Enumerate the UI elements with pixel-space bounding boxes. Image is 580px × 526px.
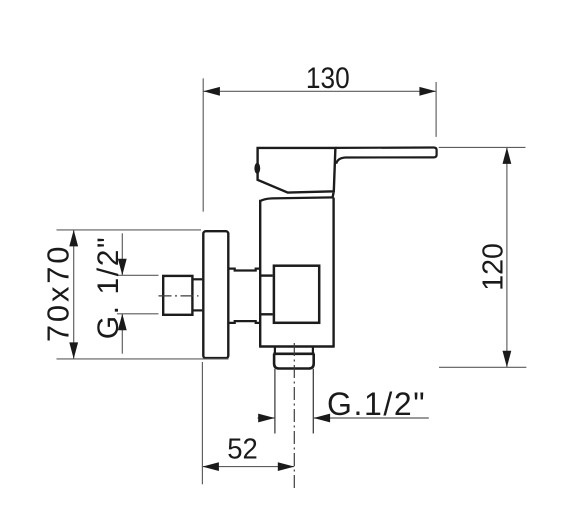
dim 70x70 arrow bottom xyxy=(69,342,78,359)
svg-text:130: 130 xyxy=(306,62,350,95)
dim 130 arrow right xyxy=(419,87,436,96)
svg-text:G.1/2": G.1/2" xyxy=(327,386,426,422)
dim G.1/2 left arrow down xyxy=(118,259,127,276)
dim G.1/2 left extension line bottom xyxy=(117,313,159,315)
body top arc (under handle) xyxy=(260,197,333,201)
left nipple neck bottom edge xyxy=(192,309,202,311)
valve block face (inner square) xyxy=(274,266,319,323)
dim 120 arrow bottom xyxy=(503,351,512,368)
dim G.1/2 left dimension line lower segment xyxy=(121,314,123,354)
svg-text:70x70: 70x70 xyxy=(41,244,76,342)
dim 130 arrow left xyxy=(203,87,220,96)
dim G.1/2 left dimension line upper segment xyxy=(121,233,123,275)
left nipple neck top edge xyxy=(192,278,202,280)
svg-text:G. 1/2": G. 1/2" xyxy=(92,236,125,340)
outlet nut body with chamfered bottom xyxy=(274,354,314,369)
connector pipe top edge (plate to body, with jogs) xyxy=(229,269,260,271)
outlet nut top edge xyxy=(273,352,314,355)
left inlet nipple G1/2 xyxy=(163,276,192,315)
dim G.1/2 bottom dimension line left tail with arrow xyxy=(258,417,275,419)
dim 70x70 extension line top xyxy=(57,229,202,231)
dim G.1/2 left extension line top xyxy=(117,274,159,276)
faucet body column xyxy=(259,198,335,347)
dim 70x70 arrow top xyxy=(69,230,78,247)
dim G.1/2 left arrow up xyxy=(118,314,127,331)
nipple centerline (dash-dot) xyxy=(159,295,199,297)
handle side button (dark bump) xyxy=(254,163,260,174)
wall plate (escutcheon flange) xyxy=(203,231,228,358)
dim 130 extension line right xyxy=(435,82,437,137)
svg-text:52: 52 xyxy=(227,433,258,465)
dim 120 extension line top xyxy=(439,146,526,148)
dim 130 extension line left xyxy=(202,78,204,211)
dim 70x70 dimension line xyxy=(73,230,75,359)
dim 130 dimension line xyxy=(203,90,436,92)
dim 120 arrow top xyxy=(503,147,512,164)
inlet upper edge into valve block xyxy=(260,274,273,276)
dim 70x70 extension line bottom xyxy=(57,358,229,360)
dim G.1/2 bottom arrow pointing right xyxy=(258,414,275,423)
outlet pipe thin lines xyxy=(275,369,313,434)
inlet lower edge into valve block xyxy=(260,313,273,315)
dim 52 dimension line xyxy=(202,466,294,468)
dim G.1/2 bottom dimension line right tail xyxy=(314,417,429,419)
connector pipe bottom edge (with jogs) xyxy=(229,321,260,323)
dim 120 extension line bottom xyxy=(439,366,526,368)
outlet upper band left edge xyxy=(275,347,313,354)
handle lever arm xyxy=(335,148,436,164)
dim 52 arrow left xyxy=(202,462,219,471)
dim 52 arrow right xyxy=(278,462,295,471)
outlet vertical centerline (dash-dot) xyxy=(293,343,295,488)
handle cap outline xyxy=(258,148,336,199)
dim 52 extension line left xyxy=(201,362,203,484)
dim 120 dimension line xyxy=(506,147,508,367)
svg-text:120: 120 xyxy=(478,243,510,291)
dim G.1/2 bottom arrow pointing left xyxy=(314,414,331,423)
